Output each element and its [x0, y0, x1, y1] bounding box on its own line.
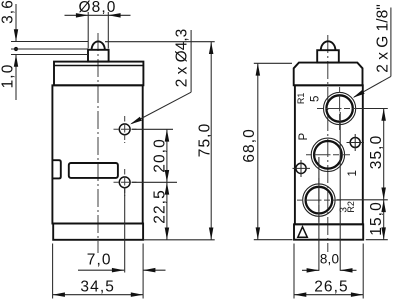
svg-text:R1: R1: [296, 93, 306, 105]
hole1 Ø4,3: [119, 124, 130, 135]
main body front: [52, 85, 142, 223]
centerline side: [327, 35, 329, 252]
bottom flange front: [53, 224, 143, 240]
svg-text:7,0: 7,0: [87, 251, 112, 268]
svg-text:1: 1: [347, 170, 359, 176]
svg-text:34,5: 34,5: [80, 278, 115, 295]
svg-text:5: 5: [310, 96, 322, 102]
small hole right: [350, 138, 360, 148]
svg-text:8,0: 8,0: [320, 252, 339, 267]
svg-text:Ø8,0: Ø8,0: [78, 0, 116, 16]
triangle symbol: [298, 227, 308, 238]
port R1/5: [324, 92, 356, 124]
bottom flange side: [294, 224, 363, 239]
slot window: [69, 163, 118, 178]
svg-text:1,0: 1,0: [0, 64, 17, 89]
plunger dome front: [92, 41, 105, 49]
valve body front: centerline: [97, 33, 99, 253]
svg-text:68,0: 68,0: [241, 128, 258, 163]
side tab: [52, 160, 60, 178]
plunger pedestal front: [88, 50, 109, 62]
cap front: [54, 62, 143, 86]
extension lines 3,6 / 1,0: [11, 41, 88, 43]
svg-text:35,0: 35,0: [368, 135, 385, 170]
svg-text:3,6: 3,6: [0, 0, 17, 24]
svg-text:2 x Ø4,3: 2 x Ø4,3: [174, 29, 191, 88]
svg-text:2 x G 1/8": 2 x G 1/8": [374, 4, 391, 72]
svg-text:P: P: [298, 133, 310, 141]
cap front inner line: [54, 65, 143, 67]
port P: [311, 138, 344, 171]
svg-text:20,0: 20,0: [151, 138, 168, 173]
svg-text:26,5: 26,5: [314, 278, 349, 295]
plunger dome side: [321, 41, 336, 50]
plunger pedestal side: [317, 50, 339, 62]
8,0 extension lines: [318, 157, 320, 271]
main body side: [295, 85, 363, 224]
hole2 Ø4,3: [119, 177, 130, 188]
svg-text:R2: R2: [346, 201, 356, 213]
port 3/R2: [303, 184, 335, 216]
small hole left: [296, 163, 306, 173]
cap side: [294, 63, 363, 86]
